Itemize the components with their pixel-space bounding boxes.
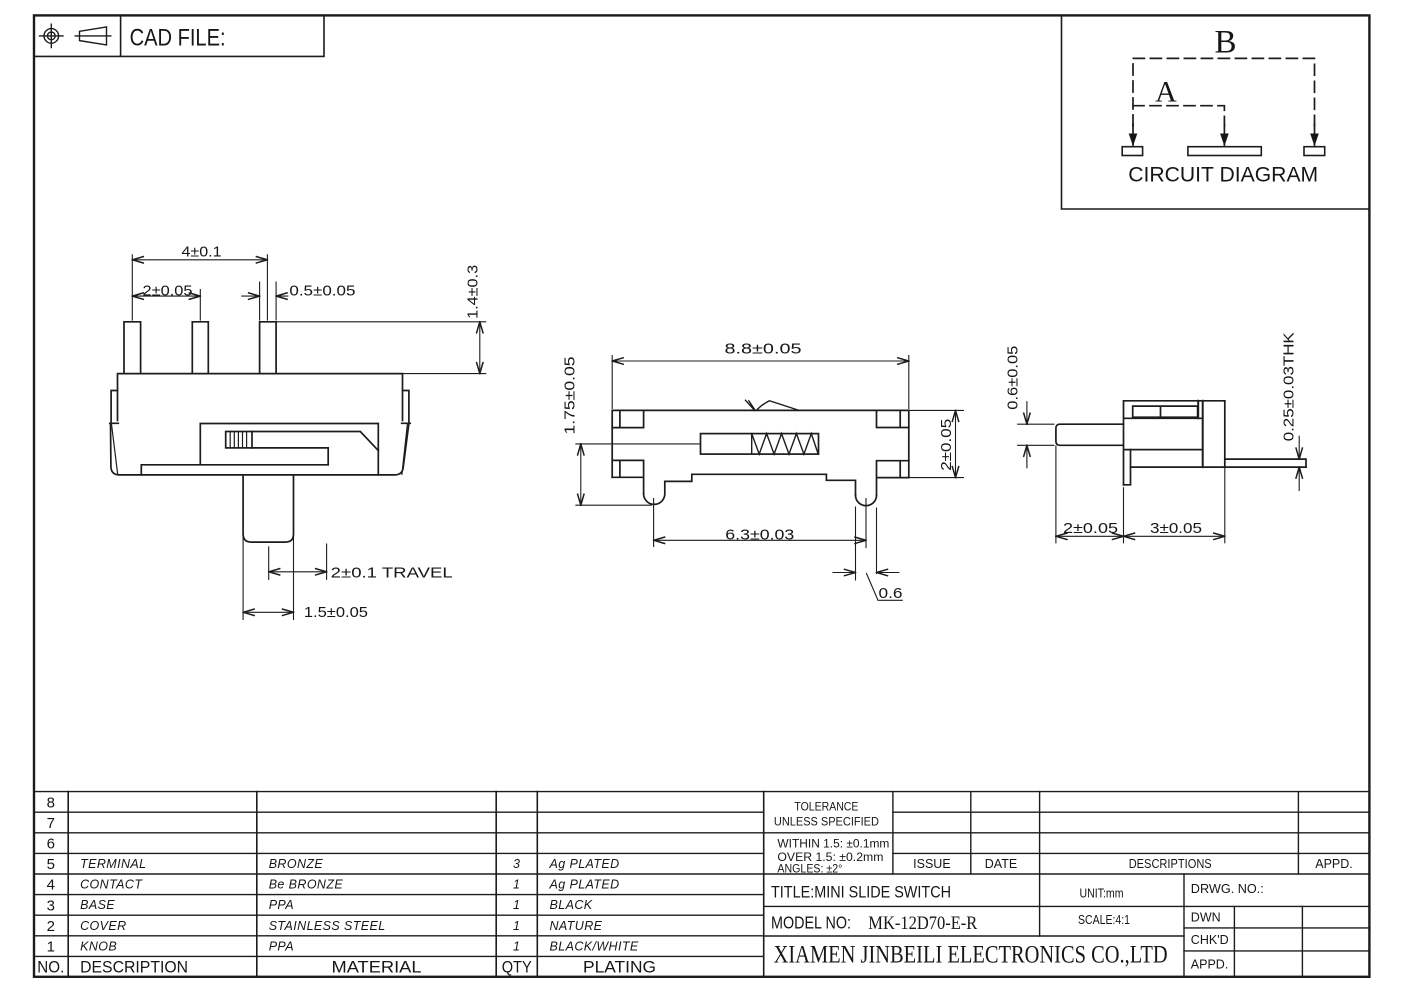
svg-text:DESCRIPTIONS: DESCRIPTIONS xyxy=(1129,857,1212,871)
svg-text:2±0.05: 2±0.05 xyxy=(1063,520,1118,537)
svg-text:2±0.1 TRAVEL: 2±0.1 TRAVEL xyxy=(331,565,453,582)
dim 2±0.05 line (side) xyxy=(1056,535,1124,537)
svg-text:B: B xyxy=(1214,25,1236,61)
dim 6.3±0.03 line xyxy=(654,539,866,541)
arrowheads dim 0.6 xyxy=(845,569,888,575)
svg-text:ANGLES: ±2°: ANGLES: ±2° xyxy=(777,863,842,875)
svg-text:5: 5 xyxy=(47,856,55,873)
arrowheads dim 8.8±0.05 xyxy=(612,358,909,364)
front view slider window xyxy=(141,424,378,475)
svg-text:3±0.05: 3±0.05 xyxy=(1150,520,1202,537)
svg-text:WITHIN 1.5: ±0.1mm: WITHIN 1.5: ±0.1mm xyxy=(777,839,889,851)
svg-text:0.5±0.05: 0.5±0.05 xyxy=(289,282,355,299)
svg-text:PPA: PPA xyxy=(269,898,294,912)
bottom view terminal bottom-right xyxy=(877,461,909,496)
svg-text:8: 8 xyxy=(47,794,55,811)
svg-text:NO.: NO. xyxy=(37,959,64,977)
svg-text:APPD.: APPD. xyxy=(1191,957,1229,971)
svg-text:MK-12D70-E-R: MK-12D70-E-R xyxy=(868,914,978,934)
side view base bottom tab xyxy=(1124,450,1131,485)
terminal pad 3 xyxy=(1304,147,1325,156)
svg-text:KNOB: KNOB xyxy=(80,939,117,953)
dim 0.6 extension lines xyxy=(856,507,877,580)
arrowheads dim 3±0.05 xyxy=(1124,533,1225,539)
arrowheads dim 2±0.05 (bottom view) xyxy=(952,410,958,477)
parts table vertical lines xyxy=(68,792,764,977)
row 4 CONTACT xyxy=(80,878,619,892)
terminal pad 1 xyxy=(1122,147,1142,156)
dim 2±0.05 line xyxy=(132,295,200,297)
right block horizontal lines xyxy=(764,812,1370,874)
dim 0.25 arrow stems xyxy=(1298,436,1300,490)
svg-text:1: 1 xyxy=(513,898,520,912)
side view actuator knob xyxy=(1056,424,1124,445)
svg-text:SCALE:4:1: SCALE:4:1 xyxy=(1078,912,1130,927)
dashed wire net A xyxy=(1133,106,1224,126)
dim 1.4±0.3 extension lines xyxy=(276,322,486,374)
svg-text:BLACK: BLACK xyxy=(550,898,593,912)
svg-text:0.25±0.03THK: 0.25±0.03THK xyxy=(1281,332,1298,441)
bottom view terminal top-left xyxy=(612,410,643,427)
dim 8.8±0.05 line xyxy=(612,360,909,362)
dim 8.8±0.05 extension lines xyxy=(612,356,909,409)
front view right mounting tab xyxy=(402,391,411,424)
dim 4±0.1 line xyxy=(132,259,267,261)
svg-text:APPD.: APPD. xyxy=(1315,857,1353,871)
svg-text:2±0.05: 2±0.05 xyxy=(938,419,955,471)
front view terminal pin 2 xyxy=(192,322,208,374)
common terminal pad 2 xyxy=(1188,147,1261,156)
svg-text:MODEL NO:: MODEL NO: xyxy=(771,913,851,933)
right block vertical lines xyxy=(893,792,1299,874)
arrowheads dim 1.5±0.05 xyxy=(243,609,293,615)
dim 2±0.05 extension lines (bottom view) xyxy=(909,410,964,477)
svg-text:1.5±0.05: 1.5±0.05 xyxy=(304,604,368,621)
arrowheads dim 2±0.05 xyxy=(132,293,200,299)
arrowheads dim 2±0.05 (side) xyxy=(1056,533,1124,539)
svg-text:UNLESS SPECIFIED: UNLESS SPECIFIED xyxy=(774,816,879,828)
front view body lower sides and bottom xyxy=(111,423,409,475)
bottom view body top and sides xyxy=(612,410,909,477)
svg-text:2: 2 xyxy=(47,918,55,935)
row 3 BASE xyxy=(80,898,593,912)
svg-text:1: 1 xyxy=(513,919,520,933)
svg-text:A: A xyxy=(1155,75,1177,108)
arrow to common pad 2 xyxy=(1220,134,1229,147)
svg-text:MATERIAL: MATERIAL xyxy=(332,959,422,977)
arrowheads dim 1.75±0.05 xyxy=(578,444,584,505)
arrow shafts xyxy=(1133,124,1315,145)
row 5 TERMINAL xyxy=(80,857,619,871)
front view slider channel xyxy=(252,432,378,465)
dim 2±0.05 extension lines (side) xyxy=(1056,446,1124,543)
dim 0.6±0.05 extension lines xyxy=(1018,424,1054,445)
svg-text:XIAMEN JINBEILI ELECTRONICS CO: XIAMEN JINBEILI ELECTRONICS CO.,LTD xyxy=(774,940,1168,969)
front view actuator knob xyxy=(243,475,293,542)
bottom view right foot arc xyxy=(856,495,877,506)
bottom view contact spring zigzag xyxy=(752,434,819,455)
front view left mounting tab xyxy=(110,391,119,424)
arrow to terminal pad 3 xyxy=(1310,134,1319,147)
bottom view terminal top-right xyxy=(877,410,909,427)
svg-text:BASE: BASE xyxy=(80,898,115,912)
svg-text:QTY: QTY xyxy=(502,959,532,977)
svg-text:TITLE:MINI SLIDE SWITCH: TITLE:MINI SLIDE SWITCH xyxy=(771,884,951,902)
svg-text:Ag PLATED: Ag PLATED xyxy=(549,857,620,871)
svg-text:PPA: PPA xyxy=(269,939,294,953)
svg-text:2±0.05: 2±0.05 xyxy=(143,282,193,299)
front view terminal pin 1 xyxy=(124,322,141,374)
svg-text:DESCRIPTION: DESCRIPTION xyxy=(80,959,188,977)
front view knob (hatched) xyxy=(226,432,252,448)
side view right edge xyxy=(1224,401,1226,467)
svg-text:NATURE: NATURE xyxy=(550,919,603,933)
dashed wire net B xyxy=(1133,58,1315,126)
svg-text:CONTACT: CONTACT xyxy=(80,878,143,892)
arrowheads dim 1.4±0.3 xyxy=(477,322,483,374)
svg-text:DATE: DATE xyxy=(985,857,1017,871)
row 1 KNOB xyxy=(80,939,639,953)
svg-text:ISSUE: ISSUE xyxy=(913,857,951,871)
svg-text:CHK'D: CHK'D xyxy=(1191,933,1229,947)
dim 2±0.05 line (bottom view) xyxy=(955,410,957,477)
svg-text:DWN: DWN xyxy=(1191,911,1221,925)
dim 1.4±0.3 line xyxy=(479,322,481,374)
dim 1.75±0.05 extension lines xyxy=(576,444,701,505)
CAD FILE title box xyxy=(34,15,324,56)
svg-text:TOLERANCE: TOLERANCE xyxy=(794,801,858,813)
svg-text:1: 1 xyxy=(513,878,520,892)
side view terminal pin xyxy=(1225,459,1306,467)
svg-text:UNIT:mm: UNIT:mm xyxy=(1080,885,1124,900)
front view terminal pin 3 xyxy=(260,322,277,374)
svg-text:DRWG. NO.:: DRWG. NO.: xyxy=(1191,882,1264,896)
svg-text:4: 4 xyxy=(47,877,55,894)
bottom view contact spring cavity xyxy=(701,434,819,455)
arrowheads dim 0.6±0.05 xyxy=(1024,413,1030,456)
svg-text:1: 1 xyxy=(513,939,520,953)
arrowheads dim 6.3±0.03 xyxy=(654,537,866,543)
dim 1.5±0.05 extension lines xyxy=(243,534,293,620)
dim 0.6 arrow tails xyxy=(833,572,899,574)
dim 0.5±0.05 extension lines xyxy=(260,282,277,320)
dim 0.5±0.05 arrow tails xyxy=(242,295,288,297)
parts table horizontal lines xyxy=(34,791,1369,793)
svg-text:BLACK/WHITE: BLACK/WHITE xyxy=(550,939,639,953)
dim 0.6 leader xyxy=(867,574,903,601)
svg-text:1.75±0.05: 1.75±0.05 xyxy=(562,357,579,435)
dim 3±0.05 line xyxy=(1124,535,1225,537)
dim 6.3±0.03 extension lines xyxy=(654,499,866,548)
dim 0.6±0.05 arrow stems xyxy=(1026,402,1028,468)
svg-text:BRONZE: BRONZE xyxy=(269,857,324,871)
arrowheads dim 2±0.1 travel xyxy=(269,569,327,575)
side view cover outline xyxy=(1124,401,1225,485)
bottom view left foot arc xyxy=(644,481,665,504)
svg-text:0.6: 0.6 xyxy=(879,585,903,602)
side view base bottom line xyxy=(1131,466,1307,468)
svg-text:Be BRONZE: Be BRONZE xyxy=(269,878,344,892)
svg-text:3: 3 xyxy=(47,897,55,914)
dim 3±0.05 extension line xyxy=(1224,467,1226,543)
svg-text:COVER: COVER xyxy=(80,919,126,933)
bottom view bottom profile xyxy=(665,474,856,495)
svg-text:8.8±0.05: 8.8±0.05 xyxy=(725,340,802,357)
svg-text:TERMINAL: TERMINAL xyxy=(80,857,146,871)
svg-text:CAD FILE:: CAD FILE: xyxy=(130,25,226,52)
svg-text:3: 3 xyxy=(513,857,520,871)
svg-text:STAINLESS STEEL: STAINLESS STEEL xyxy=(269,919,386,933)
dim 2±0.1 travel lines xyxy=(269,544,327,579)
side view cover inner plate xyxy=(1133,406,1198,417)
dim 4±0.1 extension lines xyxy=(132,255,267,320)
bottom view terminal bottom-left xyxy=(612,460,643,493)
arrowheads dim 0.25±0.03THK xyxy=(1296,448,1302,478)
svg-text:6: 6 xyxy=(47,836,55,853)
svg-text:Ag PLATED: Ag PLATED xyxy=(549,878,620,892)
svg-text:7: 7 xyxy=(47,815,55,832)
first-angle projection symbol: side (truncated cone) xyxy=(75,27,111,45)
front view body outline xyxy=(118,374,403,421)
circuit diagram box xyxy=(1062,15,1370,209)
svg-text:OVER 1.5: ±0.2mm: OVER 1.5: ±0.2mm xyxy=(777,852,883,864)
svg-text:1.4±0.3: 1.4±0.3 xyxy=(465,265,482,319)
bottom view detent spring xyxy=(746,400,800,410)
svg-text:6.3±0.03: 6.3±0.03 xyxy=(725,527,794,544)
svg-text:4±0.1: 4±0.1 xyxy=(182,244,222,261)
dim 1.5±0.05 line xyxy=(243,611,293,613)
svg-text:CIRCUIT DIAGRAM: CIRCUIT DIAGRAM xyxy=(1128,164,1318,187)
svg-text:0.6±0.05: 0.6±0.05 xyxy=(1005,346,1022,410)
arrowheads dim 0.5±0.05 xyxy=(249,293,288,299)
dim 2±0.05 pin extension line xyxy=(199,290,201,321)
svg-text:1: 1 xyxy=(47,939,55,956)
side view cover right edge lines xyxy=(1198,401,1203,467)
row 2 COVER xyxy=(80,919,603,933)
svg-text:PLATING: PLATING xyxy=(583,959,656,977)
front view body draft edges xyxy=(111,423,407,474)
arrowheads dim 4±0.1 xyxy=(132,257,267,263)
first-angle projection symbol: front (target circle) xyxy=(40,24,63,47)
arrow to terminal pad 1 xyxy=(1129,134,1138,147)
dim 1.75±0.05 line xyxy=(580,444,582,505)
